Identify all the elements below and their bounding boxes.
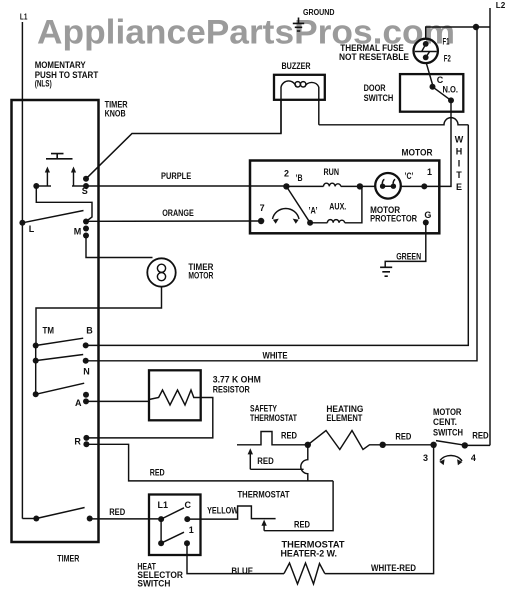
wire resistor return to R contact xyxy=(86,398,212,438)
svg-text:C: C xyxy=(185,500,192,510)
node M contact 3 xyxy=(83,233,89,239)
svg-text:TIMER: TIMER xyxy=(57,554,79,564)
svg-text:RUN: RUN xyxy=(324,167,340,177)
node door switch N.O. xyxy=(448,97,454,103)
svg-text:HEATER-2 W.: HEATER-2 W. xyxy=(281,548,338,558)
svg-text:DOOR: DOOR xyxy=(364,83,386,93)
svg-text:SWITCH: SWITCH xyxy=(137,579,170,589)
wire buzzer right lead xyxy=(318,87,320,125)
svg-text:PROTECTOR: PROTECTOR xyxy=(370,213,417,223)
wire thermal fuse to door switch C xyxy=(426,63,432,84)
wire buzzer to B-riser with hop over white wire xyxy=(319,118,469,125)
thermal fuse element xyxy=(415,44,437,57)
wire buzzer left lead to start wire xyxy=(280,87,282,134)
junction run-aux-protector xyxy=(357,183,363,189)
wire green G to chassis ground xyxy=(385,223,426,267)
node motor terminal G xyxy=(423,220,429,226)
wire run winding to junction xyxy=(341,185,375,187)
motor protector contacts xyxy=(380,184,385,189)
node heating element right xyxy=(380,442,386,448)
svg-text:BLUE: BLUE xyxy=(231,566,253,576)
node S upper contact xyxy=(83,176,89,182)
node A contact lower xyxy=(83,398,89,404)
svg-text:A: A xyxy=(75,398,82,408)
timer switch blade TM-N xyxy=(36,355,83,361)
svg-text:B: B xyxy=(86,326,93,336)
wire aux winding to junction xyxy=(345,186,362,222)
svg-text:4: 4 xyxy=(471,453,476,463)
node M contact 1 xyxy=(83,219,89,225)
svg-text:MOTOR: MOTOR xyxy=(402,148,433,158)
svg-text:3.77 K OHM: 3.77 K OHM xyxy=(213,375,261,385)
svg-text:ORANGE: ORANGE xyxy=(162,208,194,218)
svg-text:3: 3 xyxy=(423,453,428,463)
centrifugal switch rotation arc xyxy=(440,455,462,461)
heat selector blade L1-C xyxy=(161,508,184,519)
node motor contact A xyxy=(307,220,313,226)
node S lower contact xyxy=(83,183,89,189)
motor centrifugal switch blade xyxy=(436,441,465,446)
svg-text:2: 2 xyxy=(284,169,289,179)
svg-text:’C’: ’C’ xyxy=(405,171,414,181)
svg-text:G: G xyxy=(424,210,431,220)
heat selector blade to 1 xyxy=(161,532,184,543)
ground (motor chassis) xyxy=(380,267,392,276)
node motor centrifugal switch 4 xyxy=(462,442,468,448)
wire motor main to run winding xyxy=(286,185,323,187)
svg-text:L2: L2 xyxy=(496,1,506,10)
node F2 terminal xyxy=(423,55,429,61)
svg-text:RED: RED xyxy=(257,456,274,466)
svg-text:N.O.: N.O. xyxy=(443,84,459,94)
heating element xyxy=(308,431,383,450)
svg-text:AUX.: AUX. xyxy=(329,201,346,211)
timer switch blade TM-A xyxy=(36,383,84,394)
node L contact bottom xyxy=(33,516,39,522)
wire red H contact to heat selector L1 xyxy=(90,518,161,520)
node H contact xyxy=(87,516,93,522)
safety thermostat sense arrow xyxy=(249,453,251,470)
wire purple S to motor terminal 2 xyxy=(86,185,286,187)
svg-text:’A’: ’A’ xyxy=(309,205,318,215)
svg-text:GROUND: GROUND xyxy=(303,8,335,17)
wire yellow C to thermostat xyxy=(187,506,275,519)
svg-text:RED: RED xyxy=(281,431,297,441)
motor protector circle xyxy=(375,173,401,199)
svg-text:1: 1 xyxy=(189,525,194,535)
svg-text:R: R xyxy=(74,437,81,447)
motor rotation arc 7-A xyxy=(273,208,300,219)
wire heat selector internal L1 down xyxy=(160,519,162,543)
wire L2 supply line vertical xyxy=(489,8,491,445)
svg-text:1: 1 xyxy=(427,167,432,177)
wire white N contact to L2 tap riser xyxy=(86,27,477,361)
node door switch C xyxy=(430,84,436,90)
svg-text:TM: TM xyxy=(43,326,55,336)
wire red jog to thermostat heater arrow xyxy=(264,481,333,531)
node push-start left contact xyxy=(33,183,39,189)
wire safety thermostat sense lead xyxy=(250,468,303,470)
timer motor M1 circle xyxy=(147,258,175,286)
motor outline xyxy=(250,161,439,234)
wire white door switch to motor 1 xyxy=(424,100,451,186)
svg-text:RED: RED xyxy=(395,431,411,441)
wire push-start right contact segment xyxy=(72,185,86,187)
node TM contact 3 xyxy=(33,391,39,397)
svg-text:H: H xyxy=(456,147,463,157)
svg-text:WHITE: WHITE xyxy=(263,350,288,360)
wire R lower contact red to thermostat circuit xyxy=(86,444,333,481)
wire push-start to M contact xyxy=(36,186,92,222)
svg-text:CENT.: CENT. xyxy=(433,417,457,427)
wire push-start left contact segment xyxy=(36,185,51,187)
resistor 3.77k element xyxy=(149,390,201,405)
svg-text:SWITCH: SWITCH xyxy=(433,427,463,437)
thermostat heater element xyxy=(284,563,325,584)
safety thermostat bump xyxy=(237,432,308,445)
node TM contact 2 xyxy=(33,358,39,364)
svg-text:RED: RED xyxy=(150,467,165,477)
buzzer coil xyxy=(281,81,296,87)
svg-text:RED: RED xyxy=(109,507,125,517)
svg-text:MOTOR: MOTOR xyxy=(188,270,213,280)
svg-text:ELEMENT: ELEMENT xyxy=(326,413,362,423)
node F1 terminal xyxy=(423,41,429,47)
ground (top, chassis near buzzer) xyxy=(293,18,304,32)
wire blue 1 to thermostat heater xyxy=(187,543,284,573)
svg-text:L1: L1 xyxy=(20,13,28,22)
wire white B contact to buzzer riser xyxy=(86,125,469,346)
thermostat sense arrow (operating) xyxy=(263,524,265,530)
svg-text:NOT RESETABLE: NOT RESETABLE xyxy=(339,52,409,62)
heat selector switch outline xyxy=(149,495,201,556)
svg-text:SAFETY: SAFETY xyxy=(250,404,277,414)
node TM contact 1 xyxy=(33,343,39,349)
timer motor M1 windings xyxy=(157,264,165,272)
svg-text:RED: RED xyxy=(294,519,310,529)
run winding xyxy=(324,183,341,186)
junction heating element left xyxy=(305,442,311,448)
thermal fuse F1-F2 circle xyxy=(414,39,438,63)
svg-text:MOTOR: MOTOR xyxy=(433,407,462,417)
wire orange M to motor terminal 7 xyxy=(86,220,261,222)
svg-text:W: W xyxy=(455,135,464,145)
node heat selector C xyxy=(184,516,190,522)
wire A to aux winding xyxy=(310,222,327,224)
push-start left actuator arrow xyxy=(46,172,48,186)
aux winding xyxy=(327,220,344,223)
node motor terminal 2 xyxy=(283,183,289,189)
wire TM contact column xyxy=(35,346,37,395)
node heat selector lower left xyxy=(158,540,164,546)
node heat selector 1 xyxy=(184,540,190,546)
svg-text:L1: L1 xyxy=(158,500,169,510)
svg-text:PURPLE: PURPLE xyxy=(161,171,191,181)
wire thermal fuse riser to L2 bus xyxy=(426,27,490,39)
node L contact on L1 line xyxy=(19,220,25,226)
svg-text:WHITE-RED: WHITE-RED xyxy=(371,563,416,573)
svg-text:KNOB: KNOB xyxy=(105,109,126,119)
node B contact xyxy=(83,342,89,348)
node motor centrifugal switch 3 xyxy=(430,442,436,448)
push-start right actuator arrow xyxy=(73,172,75,186)
svg-text:E: E xyxy=(456,182,462,192)
timer switch blade TM-B xyxy=(36,338,83,345)
momentary push-to-start button xyxy=(46,154,73,159)
node motor terminal 1 xyxy=(421,183,427,189)
wire L1 to bottom L contact xyxy=(22,518,36,520)
node A contact upper xyxy=(83,392,89,398)
svg-text:(NLS): (NLS) xyxy=(35,79,52,89)
door switch outline xyxy=(400,74,463,112)
svg-text:YELLOW: YELLOW xyxy=(207,506,238,516)
svg-text:THERMOSTAT: THERMOSTAT xyxy=(238,489,290,499)
svg-text:GREEN: GREEN xyxy=(396,251,421,261)
svg-text:BUZZER: BUZZER xyxy=(282,61,311,71)
timer assembly outline xyxy=(12,100,99,542)
wire timer motor return to TM xyxy=(36,287,162,346)
resistor 3.77k outline box xyxy=(149,370,201,420)
wire heating junction down with hop xyxy=(301,445,308,481)
svg-text:RESISTOR: RESISTOR xyxy=(213,385,250,395)
wire A contact to resistor xyxy=(86,400,149,402)
wire S contact to timer knob lead xyxy=(86,100,281,179)
timer switch blade L-M xyxy=(22,211,83,223)
node M contact 2 xyxy=(83,226,89,232)
wire L1 supply line vertical xyxy=(21,22,23,519)
svg-text:THERMOSTAT: THERMOSTAT xyxy=(250,413,297,423)
motor start switch blade 2-A xyxy=(286,186,310,222)
node R contact upper xyxy=(83,435,89,441)
wire M contact to timer motor xyxy=(86,236,153,258)
node motor terminal 7 xyxy=(258,218,264,224)
wire red switch 4 to L2 xyxy=(465,444,490,446)
svg-text:MOMENTARY: MOMENTARY xyxy=(35,60,86,70)
svg-text:L: L xyxy=(29,224,35,234)
svg-text:I: I xyxy=(458,158,461,168)
node N contact xyxy=(83,358,89,364)
svg-text:SWITCH: SWITCH xyxy=(364,93,394,103)
timer switch blade L-H xyxy=(36,508,84,519)
door switch blade xyxy=(433,87,452,101)
svg-text:F1: F1 xyxy=(443,37,450,47)
wire protector to terminal 1 xyxy=(401,185,425,187)
svg-text:F2: F2 xyxy=(444,53,451,63)
svg-text:T: T xyxy=(456,170,462,180)
buzzer outline xyxy=(274,75,325,100)
svg-text:RED: RED xyxy=(472,430,489,440)
wire white-red heater to cent switch 3 xyxy=(325,445,434,574)
svg-text:S: S xyxy=(82,186,88,196)
node heat selector L1 xyxy=(158,516,164,522)
svg-text:’B: ’B xyxy=(296,173,303,183)
svg-text:M: M xyxy=(74,227,82,237)
wire red heating element to cent switch 3 xyxy=(383,444,434,446)
svg-text:N: N xyxy=(83,367,90,377)
node R contact lower xyxy=(83,441,89,447)
junction L2 tap to N-riser xyxy=(473,24,479,30)
svg-text:7: 7 xyxy=(260,203,265,213)
